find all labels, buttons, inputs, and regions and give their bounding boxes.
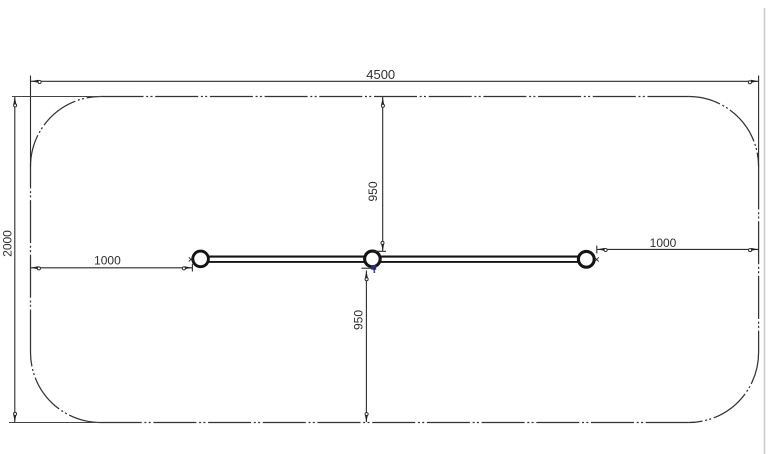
svg-text:4500: 4500 bbox=[366, 67, 395, 82]
dimension 4500 right arrow tail dot bbox=[748, 81, 751, 84]
outline left edge bbox=[30, 167, 32, 353]
outline right edge bbox=[758, 167, 760, 353]
dimension 1000 left left arrow bbox=[31, 266, 39, 269]
dimension 2000 line bbox=[14, 97, 16, 422]
dimension 1000 right line bbox=[597, 248, 758, 250]
dimension 4500 left extension line bbox=[30, 76, 32, 167]
dimension 1000 right left arrow tail dot bbox=[604, 248, 607, 251]
dimension 4500 right arrow bbox=[751, 80, 759, 83]
svg-text:950: 950 bbox=[366, 181, 380, 201]
dimension 950 lower top arrow tail dot bbox=[365, 278, 368, 281]
svg-text:1000: 1000 bbox=[94, 253, 121, 267]
dimension 1000 right extension tick bbox=[596, 246, 598, 254]
window scrollbar hairline bbox=[764, 8, 766, 454]
dimension 950 upper line bbox=[382, 97, 384, 251]
dimension 1000 right right arrow bbox=[751, 248, 759, 251]
outline bottom-right corner arc bbox=[689, 353, 759, 423]
dimension 2000 top extension line bbox=[12, 96, 101, 98]
dimension 950 upper bottom arrow tail dot bbox=[381, 241, 384, 244]
dimension 950 lower bottom arrow tail dot bbox=[365, 413, 368, 416]
dimension 950 lower extension tick bbox=[362, 267, 373, 269]
dimension 1000 right left arrow bbox=[597, 248, 605, 251]
dimension 950 upper top arrow tail dot bbox=[381, 104, 384, 107]
svg-text:1000: 1000 bbox=[650, 236, 677, 250]
post circle right bbox=[578, 251, 594, 267]
selected vertex marker bbox=[371, 265, 376, 273]
dimension 1000 left right arrow tail dot bbox=[182, 267, 185, 270]
dimension 950 upper extension tick bbox=[375, 250, 387, 252]
platform bar bottom line bbox=[201, 261, 587, 263]
dimension 4500 right extension line bbox=[758, 76, 760, 167]
outline top-left corner arc bbox=[31, 97, 101, 167]
dimension 1000 left right arrow bbox=[185, 266, 193, 269]
dimension 4500 left arrow tail dot bbox=[38, 80, 41, 83]
dimension 950 lower bottom arrow bbox=[365, 415, 368, 423]
dimension 2000 top arrow tail dot bbox=[14, 104, 17, 107]
svg-text:950: 950 bbox=[351, 310, 365, 330]
dimension 1000 right right arrow tail dot bbox=[749, 249, 752, 252]
dimension 2000 bottom arrow tail dot bbox=[14, 412, 17, 415]
dimension 950 upper bottom arrow bbox=[381, 244, 384, 252]
platform bar top line bbox=[201, 256, 587, 258]
svg-text:2000: 2000 bbox=[0, 230, 14, 257]
dimension 1000 right attach x mark bbox=[595, 257, 599, 261]
dimension 950 lower top arrow bbox=[365, 271, 368, 279]
dimension 950 lower line bbox=[365, 271, 367, 423]
outline bottom-left corner arc bbox=[31, 353, 101, 423]
outline top edge bbox=[101, 96, 689, 98]
outline bottom edge bbox=[101, 422, 689, 424]
dimension 950 upper top arrow bbox=[381, 97, 384, 105]
post circle left bbox=[193, 251, 209, 267]
dimension 1000 left attach x mark bbox=[189, 257, 193, 261]
dimension 1000 left line bbox=[31, 267, 192, 269]
dimension 4500 line bbox=[31, 80, 758, 82]
outline top-right corner arc bbox=[689, 97, 759, 167]
dimension 2000 bottom arrow bbox=[13, 415, 16, 423]
dimension 1000 left extension tick bbox=[191, 264, 193, 272]
dimension 2000 bottom extension line bbox=[9, 422, 100, 424]
dimension 2000 top arrow bbox=[13, 97, 16, 105]
dimension 1000 left left arrow tail dot bbox=[37, 267, 40, 270]
dimension 4500 left arrow bbox=[31, 80, 39, 83]
post circle center bbox=[365, 251, 381, 267]
